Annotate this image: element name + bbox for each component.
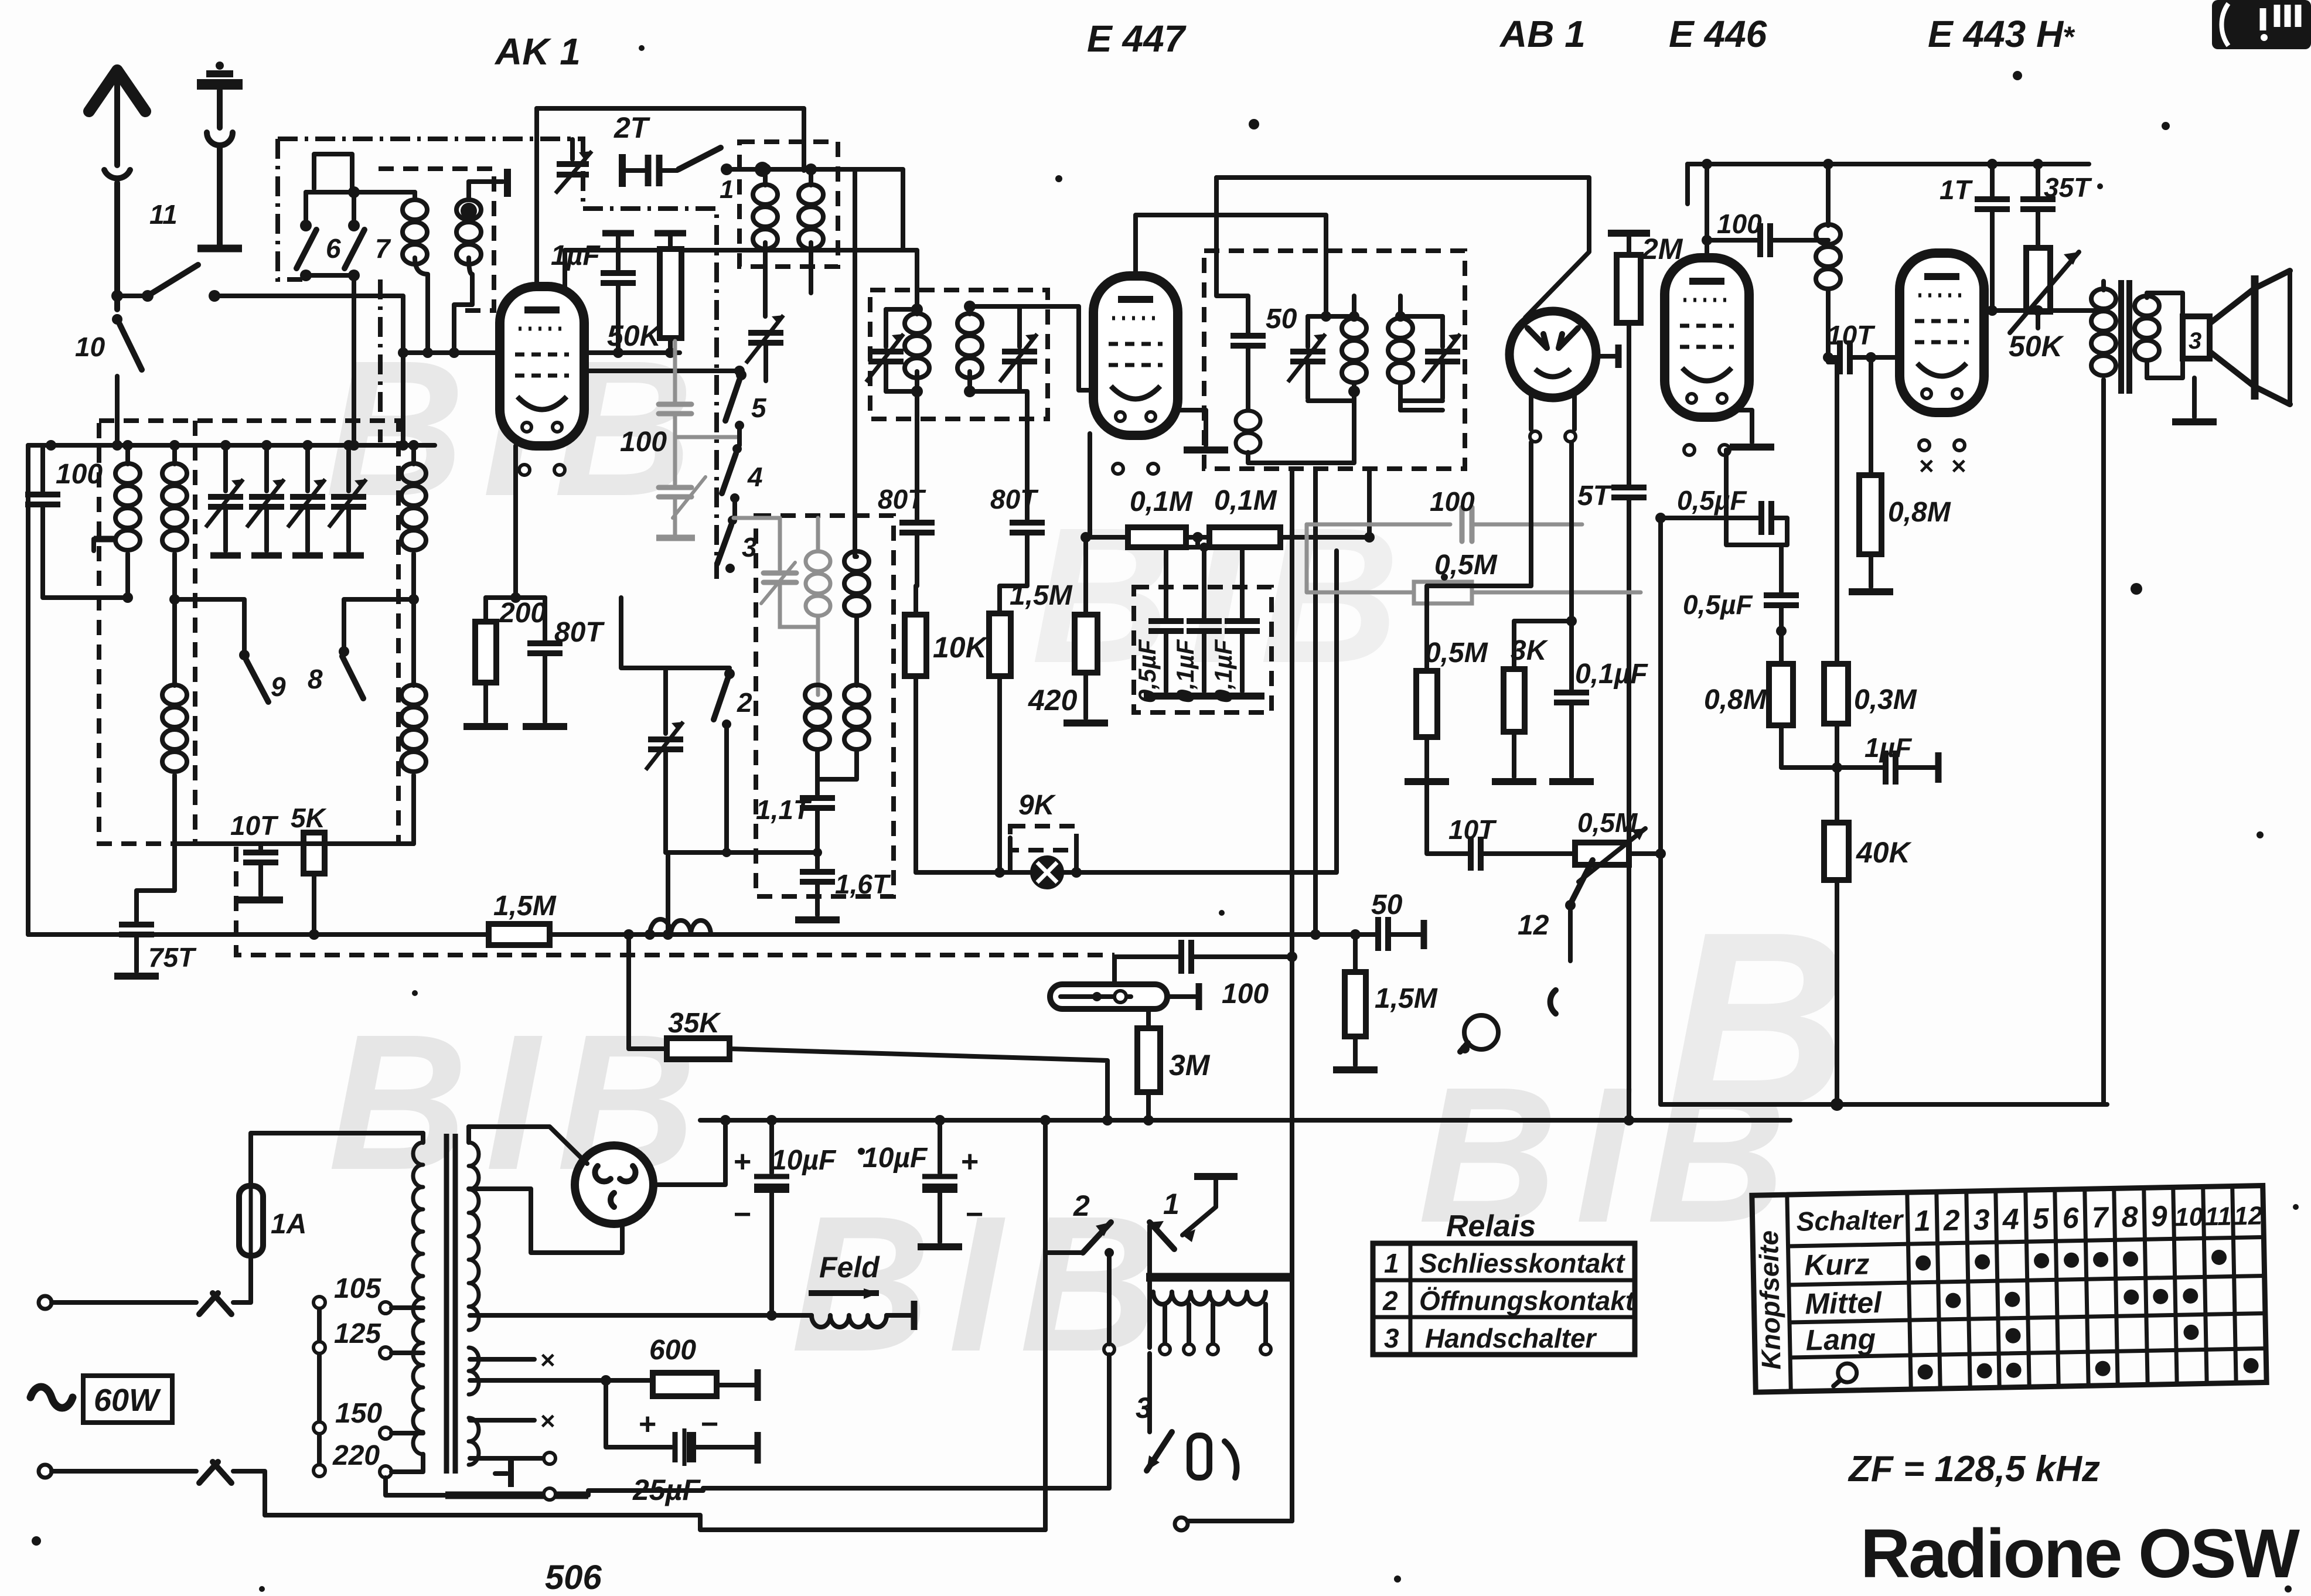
svg-text:506: 506 <box>545 1559 602 1596</box>
svg-text:1A: 1A <box>271 1209 306 1240</box>
svg-text:80T: 80T <box>990 484 1039 514</box>
resistor 0,8M grid <box>1849 357 1951 592</box>
svg-text:×: × <box>1919 452 1934 480</box>
svg-text:1,1T: 1,1T <box>756 794 812 825</box>
svg-text:80T: 80T <box>554 617 605 648</box>
svg-text:6: 6 <box>326 233 341 264</box>
antenna <box>89 70 145 309</box>
top bus of coil box <box>28 443 435 448</box>
capacitor 1,6T <box>795 852 891 920</box>
svg-text:220: 220 <box>332 1440 380 1471</box>
plate wire E443H <box>1984 308 2104 313</box>
heater winding 2 <box>469 1418 479 1465</box>
svg-text:0,1µF: 0,1µF <box>1209 639 1237 703</box>
IF transformer 2 dashed box <box>1204 251 1465 469</box>
trimmer IF2 left <box>1288 316 1325 398</box>
cathode leads below AK1 <box>486 446 545 598</box>
switch 12 <box>1518 860 1593 1014</box>
ground (earth) terminal <box>197 62 243 248</box>
svg-text:−: − <box>734 1198 751 1232</box>
power transformer core <box>446 1134 455 1474</box>
coil I <box>817 685 869 779</box>
wire AVC verticals <box>1290 469 1294 1277</box>
switch 3 <box>717 498 757 573</box>
svg-text:0,5µF: 0,5µF <box>1677 485 1747 516</box>
svg-text:0,1µF: 0,1µF <box>1575 659 1648 690</box>
dashed bus <box>236 847 1114 955</box>
svg-text:5K: 5K <box>291 803 327 833</box>
switch 9 <box>175 599 286 702</box>
svg-text:0,8M: 0,8M <box>1888 497 1951 528</box>
svg-text:8: 8 <box>308 664 323 694</box>
wires AB1 pins down <box>1427 442 1572 690</box>
resistor 1,5M vertical <box>989 580 1073 878</box>
coil C below B <box>114 599 197 976</box>
phono circle <box>1460 1015 1498 1053</box>
wire grid coil feed <box>855 169 857 557</box>
svg-text:+: + <box>734 1145 751 1179</box>
svg-text:3: 3 <box>1973 1203 1990 1236</box>
svg-text:11: 11 <box>149 199 178 230</box>
bottom wires <box>1043 1120 1048 1530</box>
switch 2 <box>714 669 752 852</box>
~ mains symbol <box>30 1387 73 1408</box>
lamp 9K <box>916 551 1337 888</box>
mains plug 1 <box>39 1256 251 1314</box>
switch 4 <box>722 425 763 503</box>
svg-text:3: 3 <box>2189 328 2201 354</box>
svg-text:9: 9 <box>2150 1200 2167 1233</box>
svg-text:11: 11 <box>2204 1202 2232 1232</box>
svg-text:10µF: 10µF <box>863 1143 928 1174</box>
svg-text:600: 600 <box>649 1335 696 1366</box>
dashed box 3 capacitors <box>1134 587 1272 712</box>
svg-text:Knopfseite: Knopfseite <box>1753 1230 1787 1370</box>
wire osc bottom <box>666 850 817 855</box>
svg-text:10: 10 <box>75 332 105 362</box>
svg-text:8: 8 <box>2121 1201 2138 1234</box>
svg-text:Feld: Feld <box>819 1251 880 1284</box>
capacitor 0,5uF right <box>1683 545 1799 664</box>
svg-text:2T: 2T <box>613 111 651 144</box>
svg-text:Radione OSW: Radione OSW <box>1860 1515 2300 1592</box>
coil IF2 right <box>1388 296 1413 410</box>
capacitor 0,5uF <box>1133 547 1188 703</box>
relay right vertical <box>1290 1277 1294 1521</box>
resistor 1,5M right <box>1333 929 1438 1070</box>
svg-text:50K: 50K <box>2009 330 2065 363</box>
svg-text:0,5M: 0,5M <box>1425 637 1488 669</box>
svg-text:−: − <box>966 1198 983 1232</box>
oscillator upper coils <box>734 518 780 569</box>
wire lower connections <box>175 841 414 846</box>
svg-text:×: × <box>1951 452 1966 480</box>
dash-dot shield box <box>278 139 717 579</box>
capacitor 1uF right <box>1781 732 1938 785</box>
dashed box around antenna coils <box>379 169 494 311</box>
switch 7 <box>345 192 391 281</box>
svg-text:0,1M: 0,1M <box>1130 486 1193 517</box>
svg-text:0,5M: 0,5M <box>1577 807 1638 838</box>
svg-text:50: 50 <box>1266 303 1297 335</box>
resistor 40K <box>1824 823 1913 1111</box>
resistor 600 <box>470 1335 758 1401</box>
switch 8 <box>308 599 414 698</box>
capacitor 50 to ground <box>1355 889 1424 951</box>
capacitor 100 <box>25 445 128 598</box>
field coil Feld <box>470 1251 914 1330</box>
svg-text:12: 12 <box>1518 910 1549 941</box>
grid wire into tube <box>403 350 502 355</box>
dashed screen box <box>99 421 398 844</box>
svg-text:35K: 35K <box>668 1008 721 1039</box>
svg-text:*: * <box>2063 21 2075 53</box>
gray wire AB1 area <box>1307 507 1641 592</box>
wire E446 cathode to column <box>1726 450 1781 545</box>
coil E below D <box>401 599 426 844</box>
svg-text:5: 5 <box>751 393 767 423</box>
svg-text:2: 2 <box>1942 1203 1960 1237</box>
svg-text:100: 100 <box>1717 209 1762 239</box>
tube E447 <box>1093 276 1178 435</box>
capacitor 25uF <box>606 1380 758 1506</box>
resistor 420 <box>1028 532 1108 723</box>
svg-text:1: 1 <box>1384 1248 1399 1278</box>
svg-text:6: 6 <box>2062 1202 2080 1235</box>
capacitor 10T to ground <box>230 810 283 900</box>
svg-text:3M: 3M <box>1169 1049 1211 1082</box>
resistor 1,5M <box>28 891 1376 945</box>
trimmer osc <box>646 668 756 935</box>
svg-text:5: 5 <box>2032 1202 2050 1235</box>
wire osc top <box>621 598 730 668</box>
wire grid line right <box>582 350 680 355</box>
svg-text:25µF: 25µF <box>632 1474 701 1506</box>
top bus right <box>1688 162 2089 166</box>
wire tube top lead <box>534 108 539 287</box>
capacitor 80T right <box>990 391 1045 613</box>
capacitor 35T <box>2020 164 2092 248</box>
svg-text:+: + <box>639 1407 656 1441</box>
capacitor 10uF second <box>863 1115 983 1247</box>
svg-text:1,6T: 1,6T <box>835 869 891 899</box>
capacitor 80T <box>523 598 605 727</box>
svg-text:3K: 3K <box>1511 635 1549 666</box>
resistor 200 <box>463 598 546 727</box>
svg-text:50K: 50K <box>607 319 663 352</box>
svg-text:7: 7 <box>2091 1201 2109 1234</box>
wire plate to IF1 <box>565 250 903 287</box>
capacitor 50 <box>1216 178 1297 410</box>
svg-text:Lang: Lang <box>1805 1322 1876 1356</box>
svg-text:2: 2 <box>737 687 752 718</box>
coil D <box>401 445 426 605</box>
capacitor 0,1uF b <box>1209 547 1264 703</box>
svg-text:E 447: E 447 <box>1087 18 1187 60</box>
coil small below 50 <box>1236 411 1260 453</box>
svg-text:1µF: 1µF <box>1865 732 1913 763</box>
4 tuning trimmer capacitors <box>206 440 243 555</box>
svg-text:3: 3 <box>1384 1323 1399 1353</box>
svg-text:E 446: E 446 <box>1669 13 1767 55</box>
primary taps <box>313 1273 423 1478</box>
grid coil J <box>753 163 778 316</box>
capacitor 0,5uF coupling <box>1655 485 1787 545</box>
trimmer right <box>1000 306 1037 391</box>
svg-text:1µF: 1µF <box>551 240 601 271</box>
capacitor 80T left <box>878 391 935 615</box>
rectifier wires <box>469 1127 587 1164</box>
oscillator dashed box <box>756 516 894 896</box>
svg-text:1: 1 <box>720 175 734 204</box>
svg-text:0,1µF: 0,1µF <box>1171 639 1199 703</box>
svg-text:+: + <box>961 1145 979 1179</box>
mains plug 2 <box>39 1462 265 1515</box>
resistor 0,5M cathode <box>1405 637 1488 782</box>
secondary HT winding <box>469 1143 479 1330</box>
svg-text:200: 200 <box>499 598 546 629</box>
svg-text:10T: 10T <box>1827 320 1876 350</box>
capacitor 1,1T <box>756 779 835 852</box>
svg-text:9: 9 <box>271 671 286 702</box>
switch 5 <box>725 370 767 430</box>
tube E443H <box>1900 253 1984 412</box>
capacitor 1uF <box>551 233 636 353</box>
watermark BIB <box>325 320 1867 1392</box>
svg-text:1,5M: 1,5M <box>493 891 557 922</box>
wire plate frame <box>537 108 804 170</box>
ground at E446 <box>1731 410 1752 442</box>
bottom mains bus <box>265 1515 1045 1530</box>
resistor 0,3M <box>1823 352 1917 823</box>
capacitor 0,1uF <box>1549 659 1648 782</box>
resistor 2M with ground bar <box>1608 233 1683 485</box>
svg-text:0,1M: 0,1M <box>1214 485 1277 516</box>
small coupling coil on bus <box>645 919 711 940</box>
Philips logo <box>2212 0 2311 49</box>
resistor 5K <box>291 803 327 940</box>
svg-text:Kurz: Kurz <box>1804 1247 1870 1281</box>
svg-text:7: 7 <box>375 233 391 264</box>
svg-text:×: × <box>540 1407 555 1435</box>
svg-text:1: 1 <box>1914 1204 1931 1237</box>
resistor 0,8M right <box>1704 664 1793 768</box>
svg-text:Öffnungskontakt: Öffnungskontakt <box>1419 1285 1635 1316</box>
svg-text:12: 12 <box>2234 1202 2263 1231</box>
cathode wire <box>564 371 739 375</box>
svg-text:10: 10 <box>2174 1202 2204 1232</box>
wire x2834 vertical <box>1661 518 2107 1104</box>
svg-text:4: 4 <box>747 462 763 492</box>
switch 11 <box>111 199 220 302</box>
svg-text:1T: 1T <box>1940 175 1973 205</box>
tube E446 <box>1705 164 1709 258</box>
dashed box grid coils <box>739 142 838 267</box>
resistor 3K <box>1492 635 1549 782</box>
trimmer below coil J <box>746 315 783 381</box>
capacitor 100 coupling <box>1114 940 1297 1010</box>
svg-text:×: × <box>540 1346 555 1375</box>
capacitor 5T <box>1577 480 1647 1120</box>
svg-text:420: 420 <box>1028 684 1078 717</box>
wire transformer down <box>2101 394 2106 1104</box>
svg-text:150: 150 <box>335 1398 382 1429</box>
trimmer IF2 right <box>1423 316 1460 398</box>
capacitor 10uF first <box>734 1115 837 1321</box>
svg-text:Schliesskontakt: Schliesskontakt <box>1419 1248 1625 1278</box>
svg-text:2M: 2M <box>1641 233 1683 265</box>
coil at E446 <box>1816 164 1840 357</box>
svg-text:10µF: 10µF <box>771 1145 837 1176</box>
resistors 0,1M <box>1090 434 1375 547</box>
svg-text:40K: 40K <box>1856 836 1913 869</box>
wire into IF1 <box>903 250 917 309</box>
tube AB1 <box>1509 311 1618 398</box>
svg-text:−: − <box>701 1407 718 1441</box>
svg-text:Mittel: Mittel <box>1805 1286 1883 1321</box>
resistor 10K <box>905 615 989 872</box>
x x o o terminals <box>470 1346 555 1500</box>
capacitor 2T and switch 1 <box>613 111 903 250</box>
svg-text:AB 1: AB 1 <box>1499 13 1586 55</box>
resistor 3M <box>1137 1009 1211 1126</box>
trimmer left <box>866 309 904 391</box>
wire E447 top lead <box>1136 215 1326 316</box>
capacitor 1T <box>1940 164 2010 311</box>
svg-text:4: 4 <box>2002 1202 2019 1236</box>
60W box <box>83 1376 172 1423</box>
svg-text:0,5µF: 0,5µF <box>1683 589 1753 620</box>
svg-text:60W: 60W <box>94 1383 161 1418</box>
svg-text:1,5M: 1,5M <box>1010 580 1073 611</box>
svg-text:2: 2 <box>1073 1189 1090 1222</box>
svg-text:10K: 10K <box>933 631 989 664</box>
svg-text:1,5M: 1,5M <box>1375 983 1438 1014</box>
svg-text:105: 105 <box>334 1273 381 1304</box>
resistor 50K <box>607 233 686 353</box>
relay coil <box>1104 1248 1292 1355</box>
capacitor 0,1uF a <box>1171 547 1226 703</box>
fuse 1A <box>239 1133 423 1261</box>
svg-text:0,5µF: 0,5µF <box>1133 639 1161 703</box>
coil A <box>94 445 140 603</box>
svg-text:100: 100 <box>56 459 103 490</box>
wires 6/7 box <box>306 190 415 195</box>
heater winding 1 <box>469 1348 479 1394</box>
svg-text:9K: 9K <box>1018 790 1056 821</box>
speaker <box>2183 271 2290 404</box>
coil F <box>905 309 929 391</box>
primary winding <box>413 1133 423 1471</box>
svg-text:100: 100 <box>1222 978 1269 1010</box>
svg-text:10T: 10T <box>230 810 279 841</box>
trimmer on shield <box>555 139 592 193</box>
gray resistor 0,5M <box>1414 486 1498 603</box>
svg-text:125: 125 <box>334 1318 381 1349</box>
ground above contact 1 <box>1182 1176 1238 1242</box>
capacitor 100 at E446 <box>1702 209 1828 257</box>
grid coil K <box>799 163 823 293</box>
wire top loop <box>1216 178 1589 318</box>
svg-text:0,8M: 0,8M <box>1704 684 1767 715</box>
svg-text:10T: 10T <box>1448 814 1497 845</box>
coil IF2 left <box>1342 296 1366 397</box>
svg-text:75T: 75T <box>148 942 197 973</box>
coil H <box>805 685 830 779</box>
antenna coil 1 <box>403 192 433 358</box>
svg-text:Handschalter: Handschalter <box>1425 1323 1597 1353</box>
ground stub at E447 <box>1179 410 1206 445</box>
svg-text:1: 1 <box>1163 1188 1180 1220</box>
switch 6 <box>296 192 341 281</box>
resistor 35K <box>623 929 1113 1126</box>
svg-text:Relais: Relais <box>1446 1209 1536 1243</box>
ground speaker <box>2192 378 2197 417</box>
switch 3 <box>1136 1353 1292 1530</box>
wire from switch 11 to AK1 grid <box>214 296 403 445</box>
svg-text:50: 50 <box>1371 889 1403 920</box>
svg-text:5T: 5T <box>1577 480 1613 511</box>
gray oscillator switch chain <box>659 341 705 534</box>
capacitor 10T / resistor 0,5M row <box>1427 737 1666 882</box>
svg-text:AK 1: AK 1 <box>494 30 581 73</box>
left outer wire <box>26 445 30 935</box>
wire IF1 to E447 grid <box>1020 306 1093 390</box>
svg-text:0,3M: 0,3M <box>1854 684 1917 715</box>
svg-text:100: 100 <box>1430 486 1475 517</box>
bottom bracket <box>445 1492 588 1499</box>
svg-text:2: 2 <box>1382 1285 1398 1316</box>
rectifier tube <box>575 1145 653 1224</box>
tuning indicator <box>1050 957 1199 1010</box>
svg-text:100: 100 <box>620 427 667 458</box>
coil G <box>957 306 982 391</box>
contact 2 <box>1045 1189 1111 1253</box>
coil B <box>162 445 187 605</box>
resistor 50K variable <box>2009 248 2079 363</box>
svg-text:Schalter: Schalter <box>1796 1204 1904 1237</box>
main B+ bus <box>700 1118 1790 1123</box>
switch 10 <box>75 314 142 451</box>
svg-text:E 443 H: E 443 H <box>1928 13 2064 55</box>
svg-text:ZF = 128,5 kHz: ZF = 128,5 kHz <box>1848 1449 2100 1489</box>
capacitor 10T input <box>1827 320 1900 374</box>
contact 1 <box>1150 1188 1180 1348</box>
antenna coil 2 <box>449 182 481 358</box>
svg-text:80T: 80T <box>878 484 926 514</box>
